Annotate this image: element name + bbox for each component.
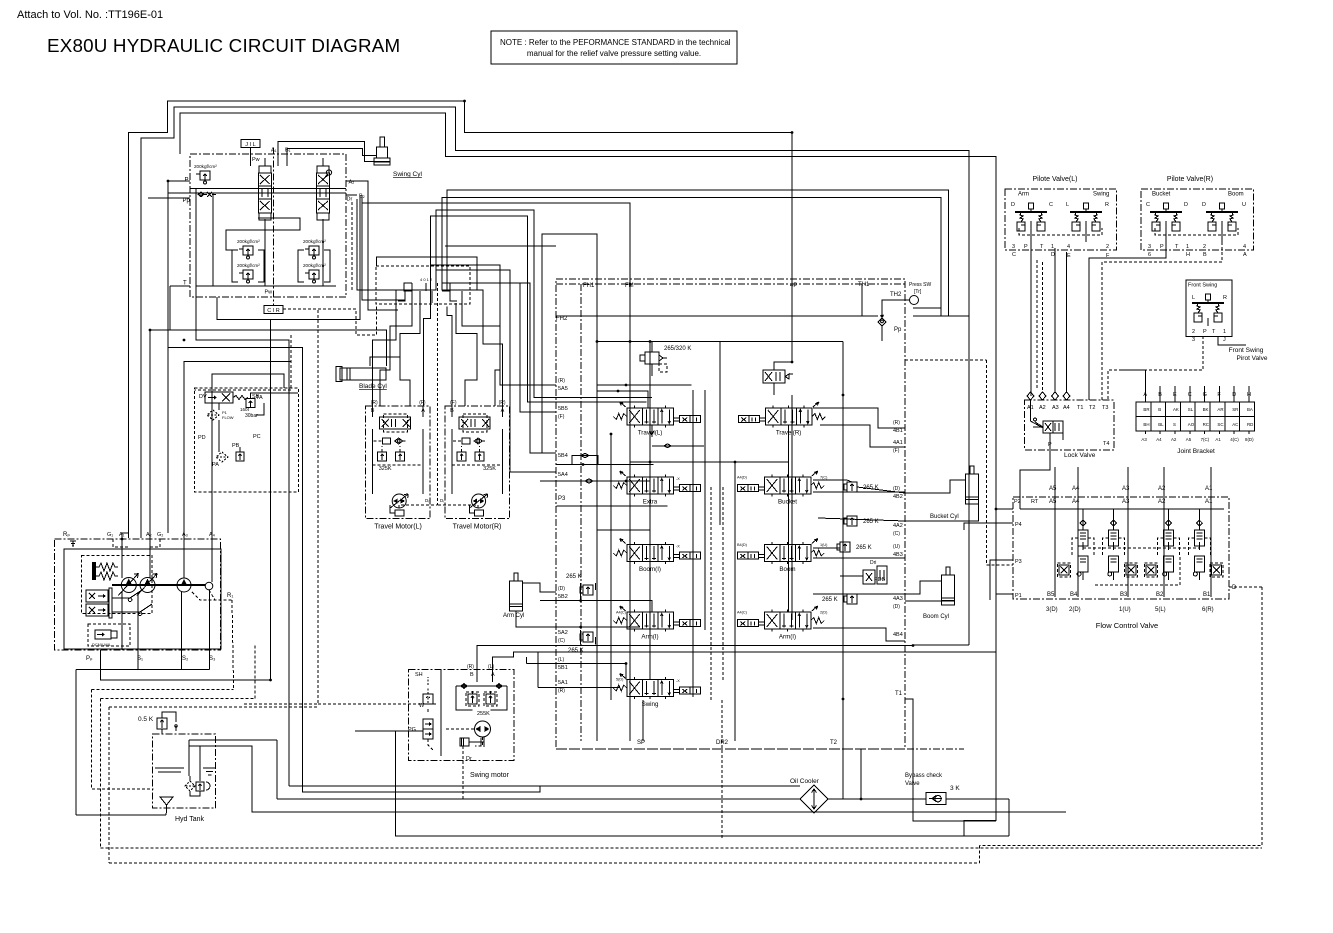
svg-text:(R): (R) — [893, 420, 900, 426]
svg-text:1: 1 — [1223, 329, 1226, 335]
valve: Arm(I)2 spool — [737, 606, 824, 641]
svg-text:(F): (F) — [893, 448, 900, 454]
wire: funnel mid h257 — [377, 257, 478, 290]
wire: A1/B1 to swing cyl — [278, 141, 377, 166]
svg-text:5A1: 5A1 — [558, 680, 568, 686]
svg-text:FLOW: FLOW — [222, 415, 234, 420]
svg-text:T1: T1 — [895, 691, 903, 697]
wire: x969 vertical lower — [968, 316, 970, 645]
wire: center dashed pilot line — [437, 283, 439, 505]
block: solenoid dashed box — [88, 624, 130, 646]
travel motor (L) motor — [390, 494, 408, 508]
svg-text:4(C): 4(C) — [1230, 437, 1239, 442]
svg-text:A: A — [1243, 252, 1247, 258]
travel motor (R) motor — [470, 494, 488, 508]
svg-text:P3: P3 — [1015, 559, 1022, 565]
wire: JIL-CIR dash-dot centerline — [273, 148, 275, 306]
svg-text:G₂: G₂ — [157, 532, 163, 538]
wire: 5B2 5A2 links — [540, 601, 652, 612]
travel motor (L) counterbalance valve — [380, 414, 411, 432]
svg-text:7(C): 7(C) — [1201, 437, 1210, 442]
wire: main block vertical FH1 — [596, 284, 598, 741]
wire: A2 to top — [150, 330, 386, 539]
svg-text:A₂: A₂ — [146, 532, 152, 538]
svg-text:B4(D): B4(D) — [737, 543, 748, 547]
filter: pilot filter — [207, 410, 219, 420]
solenoid valve bottom — [92, 630, 117, 647]
wire: x948 pilot feed down — [948, 190, 950, 316]
svg-text:TA: TA — [256, 395, 263, 401]
svg-text:Bucket Cyl: Bucket Cyl — [930, 514, 959, 520]
wire: block internals left — [196, 189, 336, 287]
wire: PG feed — [355, 730, 423, 732]
relief valve 200kgf main — [194, 164, 217, 184]
valve: Extra spool — [613, 471, 700, 506]
relief valve TA 30bar — [245, 395, 263, 419]
svg-text:Bucket: Bucket — [778, 499, 797, 506]
arm cylinder body — [510, 573, 523, 611]
svg-text:PD: PD — [198, 435, 206, 441]
wire: 5B4 check branch — [581, 453, 593, 483]
svg-text:T3: T3 — [1102, 405, 1108, 411]
svg-text:(R): (R) — [558, 688, 565, 694]
svg-text:Bypass check: Bypass check — [905, 773, 943, 779]
svg-text:A4: A4 — [1063, 405, 1070, 411]
travel motor (L) hot oil shuttle — [383, 438, 403, 444]
svg-text:A5: A5 — [1049, 499, 1057, 505]
svg-text:325K: 325K — [379, 466, 392, 472]
svg-text:R₁: R₁ — [227, 593, 233, 599]
svg-text:Dᵣ: Dᵣ — [425, 498, 429, 503]
block: pilot manifold dashed boundary — [195, 388, 299, 492]
svg-text:S: S — [1173, 422, 1176, 427]
svg-text:C: C — [1049, 202, 1053, 208]
tank strainer — [160, 797, 173, 813]
note box — [491, 31, 737, 64]
svg-text:5B1: 5B1 — [558, 665, 568, 671]
wire: T loop under block — [217, 195, 360, 319]
svg-text:Arm: Arm — [1018, 192, 1029, 198]
svg-text:D: D — [1011, 202, 1015, 208]
svg-text:A₃: A₃ — [182, 532, 188, 538]
svg-text:Lock Valve: Lock Valve — [1064, 452, 1096, 459]
wire: Pp rail — [168, 192, 346, 194]
wire: cross links rows — [652, 445, 704, 447]
wire: FM vertical — [629, 284, 631, 376]
svg-text:Pp: Pp — [894, 327, 902, 333]
svg-text:P: P — [1024, 244, 1028, 250]
svg-text:30bar: 30bar — [245, 413, 258, 419]
wire: SB loop — [168, 348, 540, 792]
svg-text:4 0 1 2: 4 0 1 2 — [420, 277, 433, 282]
swing motor makeup valve W — [423, 677, 433, 704]
wire: arm cyl lines — [523, 583, 557, 592]
svg-text:2: 2 — [1203, 244, 1206, 250]
symbol: Rp drain — [70, 541, 76, 546]
wire: T return to tank — [196, 286, 289, 786]
wire: dashed right vertical — [980, 587, 1263, 846]
svg-text:A2: A2 — [1158, 499, 1166, 505]
svg-text:5A2: 5A2 — [558, 630, 568, 636]
svg-text:A3: A3 — [1141, 437, 1147, 442]
svg-text:C: C — [1012, 252, 1016, 258]
svg-text:B: B — [470, 672, 474, 678]
label CIR box — [264, 306, 283, 315]
svg-text:Arm Cyl: Arm Cyl — [503, 613, 524, 619]
svg-text:Attach to Vol. No. :TT196E-01: Attach to Vol. No. :TT196E-01 — [17, 9, 163, 21]
wire: bucket cyl lines — [905, 480, 966, 493]
svg-text:S₂: S₂ — [182, 656, 189, 662]
block: travel motor (R) boundary — [445, 406, 510, 519]
svg-text:PC: PC — [253, 434, 261, 440]
svg-text:Flow Control Valve: Flow Control Valve — [1096, 621, 1158, 630]
wire: lock valve to fcv dashed — [986, 360, 1013, 565]
svg-text:2(D): 2(D) — [820, 611, 828, 615]
overload relief 5A2 — [580, 632, 593, 642]
travel motor (L) internal wires — [372, 406, 374, 417]
svg-text:2(D): 2(D) — [1069, 607, 1081, 613]
wire: block feed header y341 — [597, 341, 843, 343]
wire: fcv left port lines — [996, 508, 1013, 510]
svg-text:-X: -X — [676, 679, 680, 683]
swing motor PG valve — [423, 719, 433, 739]
svg-text:SH: SH — [415, 672, 423, 678]
block: lock valve boundary — [1025, 400, 1114, 450]
svg-text:B3: B3 — [1120, 592, 1128, 598]
wire: relief branch right pair — [298, 250, 304, 282]
wire: bus y203 — [362, 195, 630, 284]
pilot control lines — [112, 590, 152, 616]
travel motor (R) counterbalance valve — [459, 414, 490, 432]
svg-text:Dr: Dr — [347, 197, 353, 203]
svg-text:PG: PG — [408, 727, 416, 733]
svg-text:A2: A2 — [1039, 405, 1046, 411]
svg-text:A4: A4 — [1072, 486, 1080, 492]
svg-text:1: 1 — [1186, 244, 1189, 250]
wire: Dr dashed down — [351, 202, 353, 290]
block: flow control valve boundary — [1013, 497, 1229, 599]
svg-text:A3: A3 — [1122, 499, 1130, 505]
wire: 5B4 5A4 — [557, 464, 654, 466]
wire: pilot block connections — [218, 403, 220, 410]
svg-text:1(U): 1(U) — [820, 543, 828, 547]
pump 4 (pilot gear) — [205, 582, 213, 590]
svg-text:Boom: Boom — [1228, 192, 1244, 198]
svg-text:Pw: Pw — [265, 290, 273, 296]
wire: main block vertical FM — [629, 376, 631, 741]
valve: Travel(L) spool — [613, 402, 700, 437]
svg-text:FH2: FH2 — [556, 316, 568, 322]
svg-text:4A3: 4A3 — [893, 596, 903, 602]
svg-text:Swing motor: Swing motor — [470, 772, 510, 779]
wire: bus y210 — [436, 210, 652, 398]
svg-text:D: D — [1202, 202, 1206, 208]
wire: return bottom right steps — [1008, 799, 1010, 836]
svg-text:5(L): 5(L) — [1155, 607, 1166, 613]
svg-text:A2: A2 — [1171, 437, 1177, 442]
svg-text:200kgf/cm²: 200kgf/cm² — [237, 263, 260, 268]
wire: bottom dashdot — [556, 748, 964, 750]
svg-text:265 K: 265 K — [822, 597, 838, 603]
svg-text:4A2: 4A2 — [893, 523, 903, 529]
relief valve 0.5K — [157, 712, 177, 734]
svg-text:1: 1 — [1051, 244, 1054, 250]
wire: Dr dashed between motors — [399, 505, 438, 508]
solenoid valve 4P — [763, 370, 793, 383]
svg-text:P: P — [1203, 329, 1207, 335]
svg-text:(F): (F) — [558, 414, 565, 420]
svg-text:5B5: 5B5 — [558, 406, 568, 412]
svg-text:J I L: J I L — [245, 142, 255, 148]
svg-text:B4: B4 — [1070, 592, 1078, 598]
swing cylinder — [374, 137, 390, 165]
wire: pilot R down lines — [1089, 242, 1166, 400]
valve: Boom spool — [737, 539, 824, 574]
pump 3 — [177, 578, 191, 592]
svg-text:Front Swing: Front Swing — [1229, 347, 1264, 354]
svg-text:(L): (L) — [488, 664, 494, 670]
valve: Boom(I) spool — [613, 539, 700, 574]
wire: 4B3 4A3 — [813, 547, 840, 549]
svg-text:5B2: 5B2 — [558, 594, 568, 600]
svg-text:BH: BH — [1143, 422, 1149, 427]
wire: dashed nest 2 — [100, 697, 254, 699]
svg-text:8(D): 8(D) — [1245, 437, 1254, 442]
svg-text:P: P — [1160, 244, 1164, 250]
svg-text:Swing: Swing — [642, 701, 659, 708]
svg-text:Swing Cyl: Swing Cyl — [393, 171, 422, 178]
svg-text:R: R — [1223, 295, 1227, 301]
wire: 4B4 — [813, 628, 905, 641]
svg-text:A4(C): A4(C) — [616, 611, 627, 615]
svg-text:A5: A5 — [1049, 486, 1057, 492]
wire: lock valve P down — [1020, 450, 1050, 509]
wire: return line y786 — [289, 785, 540, 787]
valve: Travel(R) spool — [738, 402, 825, 437]
pump 1 (variable) — [118, 574, 138, 596]
svg-text:AC: AC — [1232, 422, 1238, 427]
wire: boom cyl lines — [905, 581, 942, 594]
svg-text:325K: 325K — [483, 466, 496, 472]
swing motor brake — [460, 737, 484, 747]
check valve near Pp — [878, 312, 886, 326]
wire: A3 up right — [184, 362, 291, 540]
wire: 4A2 right — [818, 518, 905, 521]
svg-text:5A5: 5A5 — [558, 386, 568, 392]
front swing joystick — [1192, 294, 1224, 322]
wire: T line left — [170, 285, 190, 287]
block: pilot valve L boundary — [1005, 189, 1117, 250]
block: swing motor dash-dot boundary — [409, 670, 515, 761]
svg-text:SR: SR — [1232, 407, 1238, 412]
svg-text:Dr: Dr — [466, 756, 472, 762]
svg-text:B: B — [1203, 252, 1207, 258]
swing motor rotor — [475, 721, 491, 737]
wire: joint bracket up wires — [1120, 370, 1145, 386]
svg-text:NOTE : Refer to the PEFORMANCE: NOTE : Refer to the PEFORMANCE STANDARD … — [500, 38, 731, 47]
svg-text:3: 3 — [1012, 244, 1015, 250]
svg-text:T1: T1 — [1077, 405, 1083, 411]
svg-text:4: 4 — [1067, 244, 1070, 250]
wire: front swing down — [1207, 318, 1209, 326]
svg-text:4B3: 4B3 — [893, 552, 903, 558]
travel motor (L) parking brake — [390, 505, 404, 516]
svg-text:DCNY-MIL: DCNY-MIL — [92, 642, 112, 647]
filter: return filter with bypass — [216, 452, 244, 462]
svg-text:AK: AK — [1173, 407, 1179, 412]
svg-text:265 K: 265 K — [568, 648, 584, 654]
wire: main relief connections — [651, 364, 653, 376]
check valve and orifice on P line — [198, 192, 216, 197]
svg-text:C I R: C I R — [267, 308, 280, 314]
wire: x941 down — [940, 262, 942, 308]
wire: bus y234 — [542, 234, 597, 453]
block: front swing boundary — [1186, 280, 1232, 337]
svg-text:BK: BK — [1203, 407, 1209, 412]
block: pump unit dash-dot boundary — [55, 539, 221, 650]
svg-text:L: L — [1066, 202, 1069, 208]
svg-text:4B4: 4B4 — [893, 632, 903, 638]
svg-text:S₃: S₃ — [209, 656, 216, 662]
wire: A4 up right — [212, 374, 284, 539]
svg-text:6(R): 6(R) — [1202, 607, 1214, 613]
svg-text:Pw: Pw — [252, 157, 260, 163]
wire: P rail — [190, 188, 346, 190]
svg-text:Swing: Swing — [1093, 192, 1109, 198]
press switch Tr — [905, 282, 932, 305]
svg-text:AR: AR — [1217, 407, 1223, 412]
wire: swing motor top feeds — [477, 646, 913, 683]
fcv top connections — [1020, 508, 1224, 510]
wire: cooler line — [540, 785, 800, 787]
svg-text:(C): (C) — [558, 638, 565, 644]
wire: main spool feed rails — [610, 434, 612, 700]
fcv solenoid boxes — [1058, 563, 1071, 577]
relief valve 200kgf port B1 — [237, 263, 260, 283]
svg-text:SP: SP — [637, 740, 645, 746]
wire: dashed return y848 — [100, 847, 1262, 849]
lock valve check diamonds — [1027, 392, 1034, 400]
svg-text:A3: A3 — [1122, 486, 1130, 492]
wire: left edge links to main block — [445, 245, 556, 247]
relief valve 200kgf port A2 — [303, 239, 326, 259]
svg-text:D: D — [1232, 585, 1237, 591]
svg-text:PA: PA — [212, 462, 219, 468]
wire: center gap verticals — [649, 342, 651, 681]
svg-text:6: 6 — [1148, 252, 1151, 258]
wire: return line y822 right — [963, 821, 965, 837]
valve: DV solenoid valve — [205, 392, 248, 403]
wire: 5B1 5A1 — [526, 664, 626, 680]
svg-text:SC: SC — [1217, 422, 1223, 427]
wire: 4P down — [791, 395, 793, 620]
crossover junction block — [398, 277, 457, 303]
wire: S rail bottom — [76, 668, 209, 670]
wire: dashed return y862 — [109, 862, 980, 864]
overload relief 4A3 — [844, 594, 857, 604]
overload relief 4B2 — [844, 482, 857, 492]
wire: dashed horizontal mid — [195, 335, 292, 390]
svg-text:SL: SL — [1188, 407, 1194, 412]
svg-text:Pp: Pp — [183, 198, 191, 204]
svg-text:D: D — [1184, 202, 1188, 208]
svg-text:4B1: 4B1 — [893, 428, 903, 434]
svg-text:C: C — [1146, 202, 1150, 208]
label JIL box — [241, 140, 260, 149]
svg-text:B: B — [1158, 407, 1161, 412]
travel motor (R) hot oil shuttle — [462, 438, 482, 444]
svg-text:R: R — [1105, 202, 1109, 208]
svg-text:5B4: 5B4 — [558, 453, 568, 459]
block: main control valve dash-dot boundary — [556, 279, 905, 749]
wire: pump verticals inside — [121, 539, 123, 578]
valve: Swing spool — [613, 674, 700, 709]
svg-text:A3: A3 — [1052, 405, 1059, 411]
svg-text:3(D): 3(D) — [1046, 607, 1058, 613]
travel motor (R) parking brake — [470, 505, 484, 516]
svg-text:Dᵣ: Dᵣ — [440, 498, 444, 503]
svg-text:(F): (F) — [450, 400, 457, 406]
swing motor check valves — [456, 684, 507, 689]
wire: center dashed pilot verticals — [710, 487, 712, 700]
svg-text:Hyd Tank: Hyd Tank — [175, 816, 205, 823]
svg-text:BL: BL — [1158, 422, 1164, 427]
wire: PDB connections — [852, 557, 905, 559]
svg-text:B2: B2 — [1156, 592, 1164, 598]
svg-text:B5: B5 — [1047, 592, 1055, 598]
svg-text:DV: DV — [199, 394, 207, 400]
svg-text:Oil Cooler: Oil Cooler — [790, 778, 820, 785]
pump 2 (variable) — [137, 574, 157, 596]
svg-text:A4(D): A4(D) — [737, 476, 748, 480]
svg-text:(R): (R) — [467, 664, 474, 670]
svg-text:G₁: G₁ — [107, 532, 113, 538]
svg-text:(R): (R) — [499, 400, 506, 406]
fcv compensator columns — [1072, 522, 1094, 580]
svg-text:-X: -X — [676, 545, 680, 549]
svg-text:2: 2 — [1192, 329, 1195, 335]
svg-text:TH2: TH2 — [890, 292, 902, 298]
svg-text:Valve: Valve — [905, 781, 920, 787]
tank fluid levels — [155, 768, 216, 775]
svg-text:T4: T4 — [1103, 441, 1109, 447]
wire: TH2 Pp vertical — [881, 326, 883, 341]
pilot R boom joystick — [1206, 203, 1238, 231]
pilot valve internal dashed lines — [1019, 228, 1102, 235]
wire: 4B2 right — [813, 480, 852, 482]
svg-text:(C): (C) — [893, 531, 900, 537]
lock valve internal wires — [1031, 400, 1044, 428]
svg-text:A₂: A₂ — [349, 180, 355, 186]
wire: Pp down — [100, 319, 270, 680]
wire: valve drains — [264, 219, 266, 286]
svg-text:(D): (D) — [893, 486, 900, 492]
svg-text:manual for the relief valve pr: manual for the relief valve pressure set… — [527, 49, 701, 58]
svg-text:AO: AO — [1188, 422, 1195, 427]
travel motor (R) relief pair — [457, 452, 484, 461]
wire: travel L connections — [596, 384, 691, 386]
wire: pump A1 up — [122, 533, 129, 539]
overload relief 5B2 — [580, 585, 593, 595]
svg-text:3 K: 3 K — [950, 785, 960, 792]
block: pilot crossover dashed box — [376, 266, 470, 304]
svg-text:D: D — [1051, 252, 1055, 258]
bucket cylinder body — [966, 466, 979, 504]
wire: long left-to-right pilot lines — [318, 703, 438, 705]
oil cooler — [800, 785, 828, 813]
joint bracket stems — [1144, 386, 1146, 402]
block: pump unit inner solid box — [64, 549, 221, 649]
